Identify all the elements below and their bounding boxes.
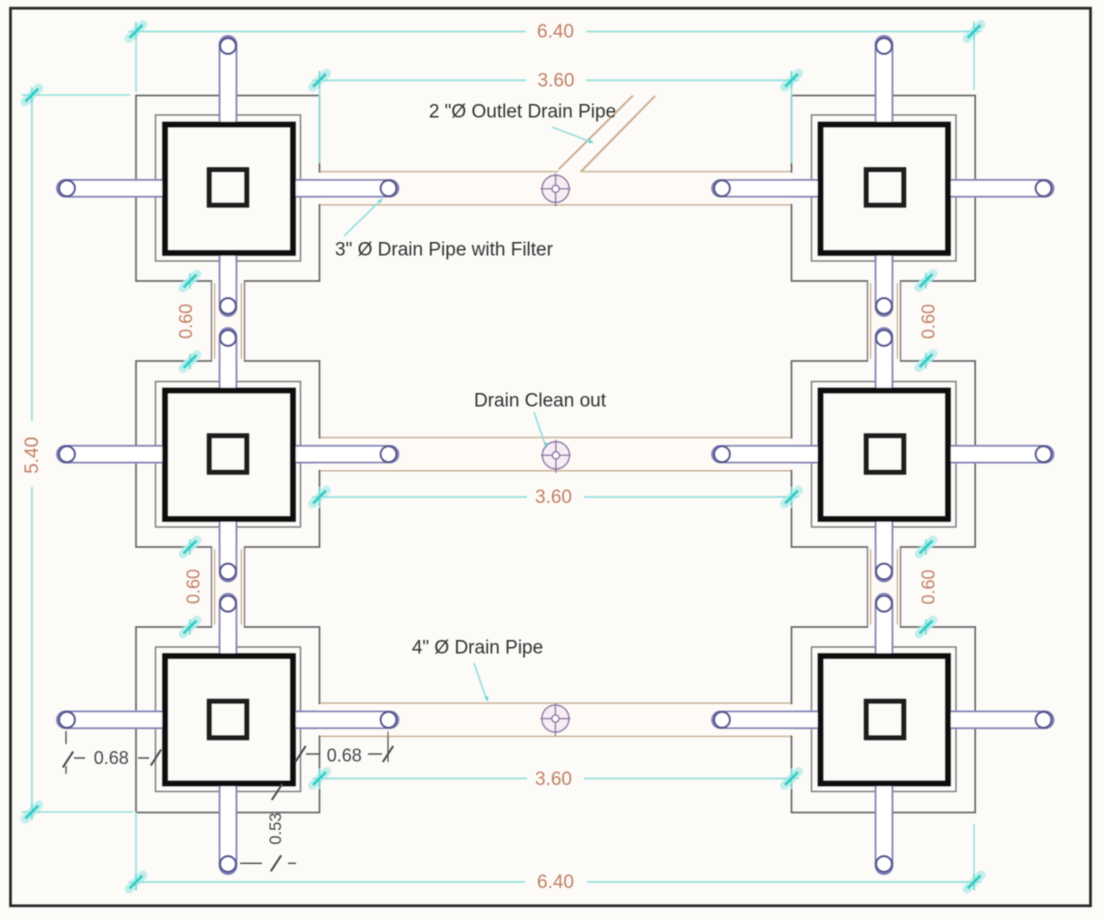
drain trench row r2 — [320, 438, 792, 470]
footing unit Lr2: column section — [209, 436, 247, 473]
footing unit Rr1: column section — [866, 170, 904, 206]
drain pipe stub — [712, 446, 823, 463]
drain pipe stub — [946, 180, 1054, 197]
drain trench row r1 — [320, 172, 792, 204]
drain pipe stub — [57, 446, 167, 463]
svg-text:3.60: 3.60 — [535, 487, 572, 508]
drain cleanout symbol — [541, 440, 571, 473]
dimension 0.68 right — [387, 731, 389, 762]
drain pipe stub — [876, 251, 893, 316]
dimension 5.40 left — [31, 95, 33, 421]
pipe end circle — [59, 712, 75, 728]
pipe end circle — [381, 180, 397, 196]
footing unit Rr2: column footing thick outline — [821, 391, 949, 520]
drain pipe stub — [220, 517, 237, 581]
dimension 6.40 top — [136, 31, 526, 33]
pipe end circle — [220, 564, 236, 580]
footing unit Lr3: excavation outline — [136, 627, 320, 813]
drain pipe stub — [712, 180, 822, 197]
svg-text:2 "Ø Outlet Drain Pipe: 2 "Ø Outlet Drain Pipe — [429, 102, 616, 123]
trench neck between footings column L — [212, 281, 244, 361]
2 inch outlet drain pipe diagonal — [559, 96, 634, 170]
pipe end circle — [220, 298, 236, 314]
drain pipe stub — [876, 328, 893, 393]
trench neck between footings column L — [212, 547, 244, 627]
drain trench row r3 — [320, 704, 792, 736]
trench neck between footings column R — [868, 547, 900, 627]
pipe end circle — [220, 330, 236, 346]
footing unit Lr3: column footing thick outline — [165, 656, 293, 784]
dimension 0.68 left — [65, 731, 67, 744]
pipe end circle — [220, 38, 236, 54]
dimension 3.60 top — [320, 79, 527, 81]
pipe end circle — [876, 596, 892, 612]
footing unit Rr2: column section — [866, 436, 904, 473]
svg-text:0.60: 0.60 — [184, 569, 204, 604]
drain cleanout symbol — [541, 173, 571, 206]
footing unit Rr3: footing pad outline — [812, 647, 957, 792]
pipe end circle — [876, 38, 892, 54]
drain pipe stub — [220, 782, 237, 874]
pipe end circle — [876, 298, 892, 314]
footing unit Lr2: excavation outline — [136, 361, 320, 547]
svg-text:3" Ø Drain Pipe with Filter: 3" Ø Drain Pipe with Filter — [335, 240, 554, 261]
pipe end circle — [220, 596, 236, 612]
drain pipe stub — [291, 711, 399, 728]
pipe end circle — [381, 446, 397, 462]
footing unit Rr2: excavation outline — [792, 361, 976, 547]
footing unit Lr3: footing pad outline — [156, 647, 301, 792]
drain pipe stub — [220, 328, 237, 392]
pipe end circle — [1036, 446, 1052, 462]
svg-text:6.40: 6.40 — [537, 22, 574, 43]
dimension 3.60 bottom row — [320, 778, 528, 780]
footing unit Lr2: footing pad outline — [156, 382, 301, 528]
drain pipe stub — [876, 594, 893, 658]
footing unit Lr1: column footing thick outline — [165, 125, 293, 254]
dimension 3.60 middle — [320, 496, 528, 498]
svg-text:4" Ø Drain Pipe: 4" Ø Drain Pipe — [412, 638, 543, 659]
svg-text:0.60: 0.60 — [918, 304, 938, 339]
svg-text:6.40: 6.40 — [537, 872, 574, 893]
svg-text:0.68: 0.68 — [94, 748, 129, 768]
drain pipe stub — [57, 180, 167, 197]
drain pipe stub — [220, 36, 237, 126]
footing unit Rr1: footing pad outline — [812, 115, 957, 261]
svg-text:3.60: 3.60 — [538, 70, 575, 91]
svg-text:0.60: 0.60 — [918, 569, 938, 604]
drain pipe stub — [946, 446, 1054, 463]
label 4 inch drain pipe — [474, 663, 486, 698]
pipe end circle — [1036, 712, 1052, 728]
footing unit Rr2: footing pad outline — [812, 382, 957, 528]
drain pipe stub — [220, 594, 237, 658]
label drain clean out — [534, 412, 545, 444]
svg-text:5.40: 5.40 — [22, 437, 43, 474]
pipe end circle — [59, 180, 75, 196]
drain pipe stub — [876, 782, 893, 875]
footing unit Lr1: footing pad outline — [156, 115, 301, 261]
footing unit Rr3: column section — [866, 701, 904, 738]
drain pipe stub — [220, 251, 237, 316]
pipe end circle — [714, 180, 730, 196]
svg-text:0.68: 0.68 — [327, 745, 362, 765]
drain pipe stub — [291, 180, 399, 197]
dimension 0.53 bottom — [240, 862, 262, 864]
svg-text:Drain Clean out: Drain Clean out — [474, 391, 607, 412]
pipe end circle — [876, 330, 892, 346]
footing unit Rr1: column footing thick outline — [821, 125, 949, 254]
junction gaps — [317, 173, 321, 204]
drain pipe stub — [876, 36, 893, 127]
label 3 inch drain pipe with filter — [344, 201, 380, 236]
dimension 6.40 bottom — [136, 881, 525, 883]
pipe end circle — [714, 712, 730, 728]
label 2 inch outlet drain pipe — [552, 127, 590, 142]
drain cleanout symbol — [540, 703, 570, 736]
trench neck between footings column R — [868, 281, 900, 361]
svg-text:0.53: 0.53 — [267, 813, 285, 845]
drain pipe stub — [57, 711, 167, 728]
svg-text:3.60: 3.60 — [535, 769, 572, 790]
drain pipe stub — [712, 711, 823, 728]
drain pipe stub — [946, 711, 1054, 728]
footing unit Rr1: excavation outline — [792, 96, 976, 282]
footing unit Lr1: excavation outline — [136, 96, 320, 282]
pipe end circle — [381, 712, 397, 728]
footing unit Lr1: column section — [209, 170, 247, 206]
dimensions 0.60 vertical gaps — [182, 273, 198, 289]
pipe end circle — [876, 564, 892, 580]
pipe end circle — [714, 446, 730, 462]
footing unit Lr3: column section — [209, 701, 247, 738]
drain pipe stub — [291, 446, 399, 463]
pipe end circle — [876, 856, 892, 872]
footing unit Rr3: column footing thick outline — [821, 656, 949, 784]
pipe end circle — [59, 446, 75, 462]
footing unit Rr3: excavation outline — [792, 627, 976, 813]
pipe end circle — [220, 856, 236, 872]
svg-text:0.60: 0.60 — [176, 304, 196, 339]
footing unit Lr2: column footing thick outline — [165, 391, 293, 520]
pipe end circle — [1036, 180, 1052, 196]
drain pipe stub — [876, 517, 893, 582]
